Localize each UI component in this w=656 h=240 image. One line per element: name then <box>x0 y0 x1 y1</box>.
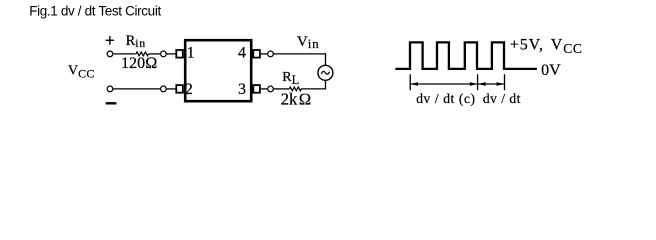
dimension arrows dv/dt span <box>478 82 504 86</box>
wire VCC- to pin2 terminal <box>113 88 160 90</box>
resistor R_L <box>289 87 301 91</box>
VCC + polarity mark <box>106 36 114 45</box>
wire R_L to source bottom <box>301 80 326 89</box>
svg-text:1: 1 <box>187 45 195 62</box>
svg-text:3: 3 <box>238 81 246 98</box>
dimension tick left <box>409 74 411 90</box>
svg-text:2k Ω: 2k Ω <box>281 90 312 109</box>
svg-text:Rin: Rin <box>126 33 146 50</box>
svg-text:dv / dt (c): dv / dt (c) <box>416 91 475 106</box>
svg-text:RL: RL <box>282 70 299 87</box>
terminal RL <box>268 86 274 92</box>
wire Vin node to source top <box>274 54 326 66</box>
wire VCC+ to R_in <box>113 53 135 55</box>
pin 4 square <box>253 50 260 58</box>
wire pin 3 to RL terminal <box>261 88 268 90</box>
IC U1 body <box>185 40 251 101</box>
dimension arrows dv/dt (c) span <box>411 82 478 86</box>
pin 1 square <box>176 50 183 58</box>
terminal VCC+ <box>107 51 113 57</box>
svg-text:0V: 0V <box>541 62 561 79</box>
wire terminal to pin 1 <box>167 53 177 55</box>
svg-text:2: 2 <box>185 81 193 98</box>
terminal Vin <box>268 51 274 57</box>
dimension tick middle <box>477 74 479 90</box>
dimension tick right <box>504 74 506 90</box>
pin 3 square <box>253 85 260 93</box>
wire R_in to input terminal <box>149 53 161 55</box>
VCC - polarity mark <box>106 102 117 104</box>
terminal input bottom <box>161 86 167 92</box>
svg-text:Vin: Vin <box>297 34 320 51</box>
svg-text:dv / dt: dv / dt <box>483 91 521 106</box>
terminal input top <box>161 51 167 57</box>
terminal VCC- <box>107 86 113 92</box>
source V1 sine generator <box>318 65 333 80</box>
svg-text:Fig.1 dv / dt Test Circuit: Fig.1 dv / dt Test Circuit <box>29 3 161 18</box>
svg-text:4: 4 <box>238 45 246 62</box>
resistor R_in <box>136 52 149 56</box>
pin 2 square <box>176 85 183 93</box>
wire terminal to pin 2 <box>167 88 177 90</box>
svg-text:VCC: VCC <box>68 64 95 81</box>
waveform square wave <box>395 42 537 69</box>
wire pin 4 to Vin terminal <box>261 53 268 55</box>
svg-text:120Ω: 120Ω <box>121 55 158 72</box>
wire terminal to R_L <box>274 88 289 90</box>
